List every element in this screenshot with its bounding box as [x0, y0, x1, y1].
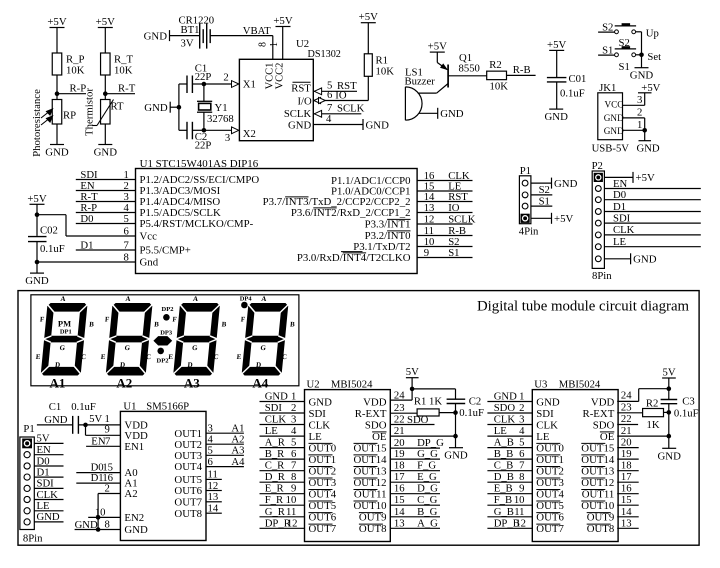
wire buzzer top to Q1 collector [418, 92, 437, 94]
svg-text:A_B: A_B [494, 437, 514, 449]
svg-text:D: D [55, 361, 61, 369]
svg-text:RST: RST [291, 82, 311, 94]
svg-text:RP: RP [63, 110, 76, 122]
svg-text:13: 13 [208, 491, 219, 503]
svg-text:OUT7: OUT7 [174, 496, 202, 508]
P2 wire (D0) [604, 189, 700, 201]
svg-text:5V: 5V [406, 366, 419, 378]
svg-text:C1: C1 [49, 401, 61, 413]
svg-text:9: 9 [519, 483, 524, 495]
svg-text:D_R: D_R [265, 471, 286, 483]
svg-text:OUT15: OUT15 [354, 442, 387, 454]
battery BT1 CR1220 3V [170, 15, 215, 50]
pin 5 RST wire [313, 79, 357, 94]
capacitor C01 0.1uF [547, 73, 586, 109]
svg-text:S1: S1 [619, 61, 630, 73]
svg-text:VDD: VDD [363, 396, 387, 408]
svg-text:LE: LE [613, 236, 626, 248]
svg-text:USB-5V: USB-5V [592, 143, 630, 155]
svg-text:R2: R2 [646, 397, 658, 409]
digit A2 (7-segment) [99, 295, 162, 391]
svg-text:OUT7: OUT7 [536, 523, 564, 535]
svg-text:R-EXT: R-EXT [583, 408, 615, 420]
U2 pin 14 wire (B_G) [390, 506, 440, 518]
U2 pin 1 wire (GND) [260, 391, 305, 403]
resistor R2 10K [487, 59, 508, 93]
U3 pin 1 wire (GND) [487, 391, 532, 403]
svg-text:OUT6: OUT6 [309, 512, 337, 524]
svg-text:LE: LE [309, 431, 323, 443]
svg-text:12: 12 [208, 480, 219, 492]
svg-text:EN1: EN1 [124, 441, 144, 453]
svg-text:10K: 10K [114, 65, 133, 77]
svg-text:SDI: SDI [265, 402, 283, 414]
svg-text:5: 5 [291, 437, 296, 449]
svg-text:OUT12: OUT12 [581, 477, 614, 489]
svg-text:OE: OE [600, 431, 615, 443]
svg-text:D_B: D_B [494, 471, 514, 483]
svg-text:GND: GND [444, 450, 468, 462]
svg-text:13: 13 [394, 517, 405, 529]
svg-text:JK1: JK1 [599, 82, 616, 94]
P1 module wire (LE) [34, 500, 63, 512]
svg-text:VCC: VCC [605, 100, 624, 110]
U3 pin 24 wire (VDD) [617, 389, 639, 402]
svg-text:B_R: B_R [265, 448, 285, 460]
svg-text:P3.0/RxD/INT4/T2CLKO: P3.0/RxD/INT4/T2CLKO [297, 252, 411, 264]
svg-text:21: 21 [394, 425, 405, 437]
svg-text:16: 16 [621, 483, 632, 495]
svg-text:1: 1 [291, 391, 296, 403]
svg-text:IO: IO [448, 202, 460, 214]
svg-text:E_B: E_B [494, 483, 513, 495]
digit A3 (7-segment) [166, 295, 229, 391]
capacitor C02 0.1uF [28, 224, 65, 273]
svg-text:6: 6 [123, 225, 129, 237]
svg-text:20: 20 [621, 437, 632, 449]
svg-text:8550: 8550 [459, 63, 480, 75]
svg-text:11: 11 [286, 506, 296, 518]
svg-text:OUT13: OUT13 [354, 466, 387, 478]
U3 pin 18 wire [617, 460, 639, 472]
svg-text:OUT4: OUT4 [174, 461, 202, 473]
svg-text:22P: 22P [195, 71, 212, 83]
IC U1 SM5166P [120, 401, 206, 541]
ground (crystal) [144, 102, 179, 114]
svg-text:B_B: B_B [494, 448, 514, 460]
svg-text:CLK: CLK [613, 224, 635, 236]
U2 pin 23 wire (R-EXT) [390, 402, 417, 414]
U2 pin 4 wire (LE) [260, 425, 305, 437]
U3 pin 15 wire [617, 494, 639, 506]
svg-text:6: 6 [208, 456, 214, 468]
U1 pin 6 wire [66, 225, 136, 237]
svg-text:F: F [172, 316, 177, 324]
svg-text:OUT2: OUT2 [309, 466, 337, 478]
svg-text:11: 11 [514, 506, 524, 518]
svg-text:G_G: G_G [417, 448, 438, 460]
digit A4 (7-segment) [235, 295, 298, 391]
svg-text:SDO: SDO [407, 414, 429, 426]
U1 pin 14 wire (RST) [417, 191, 472, 203]
U3 pin 20 wire [617, 437, 639, 449]
svg-text:F: F [104, 316, 109, 324]
svg-text:A3: A3 [184, 376, 200, 391]
svg-text:D: D [187, 361, 193, 369]
svg-text:OUT9: OUT9 [587, 512, 615, 524]
svg-text:C: C [81, 353, 87, 361]
ground (C02) [25, 273, 49, 287]
P2 wire (SDI) [604, 212, 700, 224]
svg-text:GND: GND [45, 147, 69, 159]
svg-text:5: 5 [123, 213, 128, 225]
U3 pin 11 wire (G_B) [487, 506, 532, 518]
power 5V (U2) [406, 366, 419, 391]
svg-text:2: 2 [519, 402, 524, 414]
SM5166P pin 4 wire (A2) [206, 434, 244, 446]
svg-text:Set: Set [647, 51, 661, 63]
svg-text:P2: P2 [592, 160, 603, 172]
svg-text:SCLK: SCLK [448, 213, 476, 225]
svg-text:G_B: G_B [494, 506, 514, 518]
svg-text:6: 6 [291, 448, 297, 460]
svg-text:3V: 3V [181, 38, 194, 50]
U2 pin 21 wire (OE) [390, 425, 458, 438]
buzzer LS1 [405, 67, 436, 121]
SM5166P pin 13 wire [206, 491, 222, 503]
svg-text:A: A [125, 295, 131, 303]
node R-B [507, 64, 536, 76]
svg-text:OUT10: OUT10 [581, 500, 614, 512]
svg-text:GND: GND [494, 391, 517, 403]
SM5166P left interior labels [124, 420, 148, 537]
U2 pin 18 wire (F_G) [390, 460, 440, 472]
svg-text:DP2: DP2 [157, 358, 169, 365]
svg-text:2: 2 [104, 483, 109, 495]
svg-text:OUT8: OUT8 [587, 523, 615, 535]
svg-text:C: C [282, 353, 288, 361]
power +5V (JK1) [638, 82, 661, 94]
svg-text:OUT15: OUT15 [581, 442, 614, 454]
capacitor C1 0.1uF (SM5166P) [37, 401, 121, 434]
svg-text:D1: D1 [613, 201, 626, 213]
svg-text:D: D [120, 361, 126, 369]
ground (thermistor divider) [94, 145, 118, 159]
IC U2 DS1302 [239, 38, 341, 141]
U3 pin 6 wire (B_B) [487, 448, 532, 460]
svg-text:0.1uF: 0.1uF [459, 407, 484, 419]
svg-text:S1: S1 [539, 195, 550, 207]
ground (C3) [657, 448, 681, 462]
svg-text:19: 19 [394, 448, 405, 460]
U2 pin 3 wire (CLK) [260, 414, 305, 426]
dot DP4 [240, 295, 253, 308]
svg-text:+5V: +5V [359, 11, 378, 23]
svg-text:BT1: BT1 [181, 24, 200, 36]
svg-text:GND: GND [37, 511, 60, 523]
svg-text:18: 18 [394, 460, 405, 472]
capacitor C2 0.1uF [447, 395, 484, 447]
svg-text:+5V: +5V [47, 16, 66, 28]
svg-text:LE: LE [494, 425, 507, 437]
IC U2 MBI5024 [305, 379, 391, 542]
svg-text:R-B: R-B [513, 64, 531, 76]
U2 pin 2 wire (SDI) [260, 402, 305, 414]
svg-text:RT: RT [111, 101, 124, 113]
svg-text:9: 9 [291, 483, 296, 495]
P1 module wire (GND) [34, 511, 63, 523]
P1 module wire (CLK) [34, 489, 63, 501]
ground (C2) [444, 448, 468, 462]
U3 pin 7 wire (C_B) [487, 460, 532, 472]
svg-text:P1: P1 [520, 165, 531, 177]
ground (battery) [144, 30, 170, 42]
svg-text:OUT5: OUT5 [309, 500, 337, 512]
SM5166P pin 14 wire [206, 503, 222, 515]
svg-text:6: 6 [327, 89, 333, 101]
svg-text:22: 22 [621, 413, 632, 425]
U1 left interior labels [140, 174, 260, 269]
U2 pin 13 wire (A_G) [390, 517, 440, 529]
SM5166P pin 10 wire (EN2) [88, 506, 120, 519]
svg-text:14: 14 [621, 506, 632, 518]
SM5166P pin 1 wire (5V) [83, 413, 110, 427]
svg-text:SDO: SDO [494, 402, 516, 414]
svg-text:D0: D0 [80, 213, 93, 225]
P1 module wire (SDI) [34, 478, 63, 490]
svg-text:D_G: D_G [417, 483, 438, 495]
power +5V (Q1 emitter) [428, 41, 447, 63]
svg-text:GND: GND [144, 30, 168, 42]
SM5166P pin 12 wire [206, 480, 222, 492]
svg-text:GND: GND [124, 524, 148, 536]
svg-text:2: 2 [223, 72, 228, 84]
power +5V (C01) [547, 39, 566, 77]
transistor Q1 8550 [437, 52, 487, 93]
U1 pin 9 wire (S1) [417, 247, 472, 259]
U2 pin 17 wire (E_G) [390, 471, 440, 483]
svg-text:8Pin: 8Pin [23, 533, 43, 545]
node R-P [55, 83, 86, 96]
svg-text:SDI: SDI [536, 408, 554, 420]
power 5V (U3) [662, 366, 676, 391]
svg-text:GND: GND [604, 113, 624, 123]
svg-text:EN: EN [37, 444, 52, 456]
svg-text:C01: C01 [569, 73, 587, 85]
svg-text:D1: D1 [37, 466, 50, 478]
svg-text:Thermistor: Thermistor [84, 88, 96, 136]
JK1 pin 2 wire [623, 107, 645, 131]
svg-text:23: 23 [621, 401, 632, 413]
PM / DP1 labels in digit A1 [58, 318, 72, 335]
JK1 pin 3 wire to +5V [623, 93, 645, 106]
svg-text:5V: 5V [89, 413, 102, 425]
svg-text:10K: 10K [490, 81, 509, 93]
svg-text:DS1302: DS1302 [308, 49, 341, 60]
U2 pin 20 wire (DP_G) [390, 437, 444, 449]
svg-text:24: 24 [394, 389, 405, 401]
resistor R_P 10K [52, 53, 84, 100]
power +5V (photoresistor divider) [47, 16, 66, 53]
svg-text:C_R: C_R [265, 460, 285, 472]
svg-text:10: 10 [514, 494, 525, 506]
svg-text:8: 8 [519, 471, 524, 483]
node Vcc branch [35, 212, 66, 236]
svg-text:5V: 5V [37, 433, 50, 445]
svg-text:Gnd: Gnd [140, 257, 159, 269]
svg-text:GND: GND [265, 391, 288, 403]
svg-text:D1: D1 [80, 239, 93, 251]
IC U3 MBI5024 [532, 379, 618, 542]
svg-text:8: 8 [123, 251, 128, 263]
svg-text:X2: X2 [243, 128, 256, 140]
svg-text:9: 9 [424, 247, 429, 259]
svg-text:C: C [213, 353, 219, 361]
U1 pin 11 wire (R-B) [417, 225, 472, 237]
U3 pin 14 wire [617, 506, 639, 518]
svg-text:0.1uF: 0.1uF [40, 243, 65, 255]
svg-text:VDD: VDD [591, 396, 615, 408]
svg-text:17: 17 [394, 471, 405, 483]
svg-text:5V: 5V [662, 366, 675, 378]
svg-text:OUT11: OUT11 [354, 489, 387, 501]
U3 pin 16 wire [617, 483, 639, 495]
svg-text:+5V: +5V [547, 39, 566, 51]
U2 pin 19 wire (G_G) [390, 448, 440, 460]
svg-text:8: 8 [258, 42, 269, 47]
svg-text:OUT0: OUT0 [309, 442, 337, 454]
U1 pin 5 wire (D0) [76, 213, 136, 225]
SM5166P pin 8 wire (GND) [75, 519, 121, 532]
U1 pin 7 wire (D1) [76, 239, 136, 251]
svg-text:S1: S1 [448, 247, 459, 259]
svg-text:4Pin: 4Pin [519, 226, 539, 238]
svg-text:SDI: SDI [613, 212, 631, 224]
svg-text:GND: GND [637, 143, 660, 155]
svg-text:16: 16 [394, 483, 405, 495]
wire crystal left rail [177, 84, 182, 130]
svg-text:4: 4 [326, 113, 332, 125]
svg-text:OUT4: OUT4 [536, 489, 564, 501]
switch S1 (Set) [598, 45, 661, 73]
wire switches to ground [639, 32, 644, 68]
U1 pin 15 wire (LE) [417, 180, 472, 192]
U3 pin 17 wire [617, 471, 639, 483]
svg-text:CLK: CLK [309, 419, 331, 431]
P1 module wire (D1) [34, 466, 63, 478]
svg-text:P1: P1 [23, 423, 34, 435]
ground (C01) [544, 109, 568, 123]
svg-text:5: 5 [208, 445, 213, 457]
U2 pin 7 wire (C_R) [260, 460, 305, 472]
svg-text:8: 8 [291, 471, 296, 483]
U1 right interior labels [263, 175, 411, 264]
svg-text:A3: A3 [231, 445, 244, 457]
P2 wire (D1) [604, 201, 700, 213]
P2 wire (LE) [604, 236, 700, 248]
U3 pin 23 wire (R-EXT) [617, 401, 642, 413]
U2 pin 8 wire (D_R) [260, 471, 305, 483]
U1 pin 16 wire (CLK) [417, 170, 472, 182]
svg-text:A_R: A_R [265, 437, 286, 449]
svg-text:GND: GND [554, 178, 578, 190]
svg-text:OUT3: OUT3 [536, 477, 564, 489]
U2 pin 24 wire (VDD) [390, 389, 412, 402]
colon DP3 [153, 330, 173, 346]
svg-text:F_R: F_R [265, 494, 284, 506]
capacitor C1 22P [179, 63, 211, 94]
svg-text:F_G: F_G [417, 460, 436, 472]
svg-text:GND: GND [440, 108, 464, 120]
svg-text:CLK: CLK [265, 414, 287, 426]
switch S2 (Up) [598, 22, 659, 49]
U2 pin 6 wire (B_R) [260, 448, 305, 460]
svg-text:IO: IO [335, 89, 347, 101]
U1 pin 13 wire (IO) [417, 202, 472, 214]
P2 wire (CLK) [604, 224, 700, 236]
svg-text:5: 5 [519, 437, 524, 449]
resistor R_T 10K [101, 53, 134, 100]
svg-text:SDI: SDI [309, 408, 327, 420]
svg-text:GND: GND [604, 126, 624, 136]
ground (photoresistor divider) [45, 145, 69, 159]
digital tube display box [31, 295, 299, 386]
U3 pin 5 wire (A_B) [487, 437, 532, 449]
svg-text:OUT1: OUT1 [536, 454, 564, 466]
P1 pin 2 wire (S2) [531, 184, 552, 196]
svg-text:X1: X1 [243, 78, 256, 90]
svg-text:OUT9: OUT9 [359, 512, 387, 524]
svg-text:VCC2: VCC2 [274, 63, 285, 90]
svg-text:14: 14 [208, 503, 219, 515]
svg-text:A: A [261, 295, 267, 303]
connector P1 4Pin [519, 165, 539, 238]
svg-text:E_G: E_G [417, 471, 437, 483]
U1 pin 8 wire [37, 251, 136, 263]
SM5166P pin 3 wire (A1) [206, 423, 244, 435]
svg-text:F: F [39, 316, 44, 324]
svg-text:F_B: F_B [494, 494, 512, 506]
P1 module wire (EN) [34, 444, 63, 456]
svg-text:10: 10 [286, 494, 297, 506]
svg-text:GND: GND [25, 275, 49, 287]
svg-text:3: 3 [291, 414, 296, 426]
SM5166P pin 7 wire (EN) [86, 435, 120, 447]
svg-text:G_R: G_R [265, 506, 286, 518]
svg-text:OUT7: OUT7 [309, 523, 337, 535]
svg-text:A1: A1 [50, 376, 66, 391]
svg-text:C_G: C_G [417, 494, 437, 506]
svg-text:10K: 10K [376, 66, 395, 78]
svg-text:17: 17 [621, 471, 632, 483]
svg-text:P3.6/INT2/RxD_2/CCP1_2: P3.6/INT2/RxD_2/CCP1_2 [291, 207, 411, 219]
svg-text:S2: S2 [539, 184, 550, 196]
P1 pin 1 wire to GND [531, 178, 578, 190]
wire VBAT [210, 25, 273, 59]
svg-text:Vcc: Vcc [140, 231, 158, 243]
svg-text:R2: R2 [489, 59, 501, 71]
resistor R1 1K (module) [414, 396, 458, 416]
wire 5V to C2 [412, 389, 455, 399]
svg-text:GND: GND [144, 102, 168, 114]
svg-text:OUT6: OUT6 [174, 485, 202, 497]
U2 pin 12 wire (DP_R) [260, 517, 305, 529]
svg-text:C: C [146, 353, 152, 361]
svg-text:P5.4/RST/MCLKO/CMP-: P5.4/RST/MCLKO/CMP- [140, 218, 254, 230]
svg-text:OUT10: OUT10 [354, 500, 387, 512]
svg-text:22: 22 [394, 414, 405, 426]
svg-text:+5V: +5V [641, 82, 660, 94]
